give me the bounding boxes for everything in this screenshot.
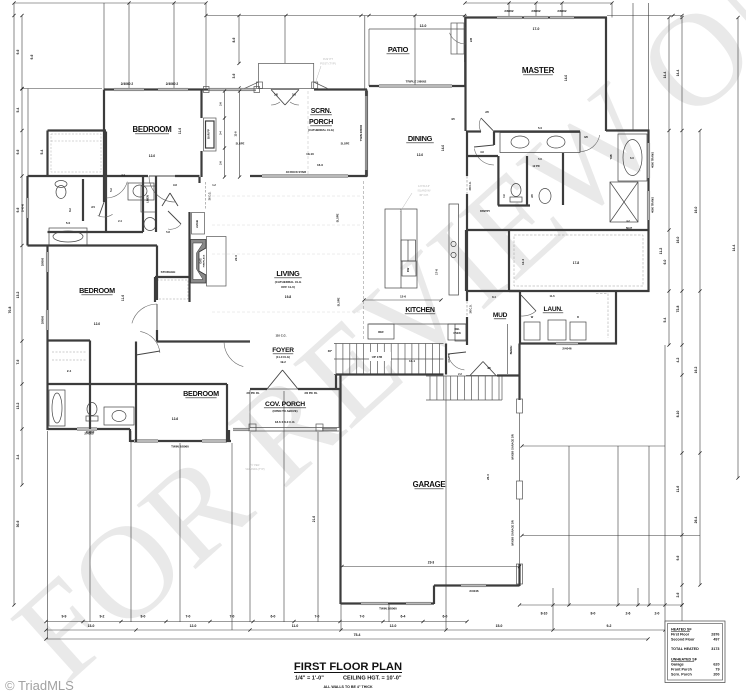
- svg-text:2/4060 2: 2/4060 2: [166, 82, 179, 86]
- svg-text:13-1: 13-1: [409, 359, 415, 363]
- svg-text:SCRN.: SCRN.: [311, 108, 332, 115]
- svg-text:4-4: 4-4: [121, 174, 125, 177]
- svg-text:19-2: 19-2: [280, 360, 286, 364]
- svg-text:12 PD: 12 PD: [532, 164, 539, 168]
- svg-text:9-6: 9-6: [16, 207, 20, 212]
- svg-text:9-9: 9-9: [62, 615, 67, 619]
- svg-text:72-8: 72-8: [676, 305, 680, 312]
- svg-text:17-0: 17-0: [533, 27, 540, 31]
- svg-text:D: D: [577, 315, 579, 319]
- svg-text:18-6 X 6-0 C.O.: 18-6 X 6-0 C.O.: [275, 420, 295, 424]
- svg-text:12-0: 12-0: [94, 322, 101, 326]
- svg-text:2/8062: 2/8062: [557, 9, 567, 13]
- svg-text:12-0: 12-0: [417, 153, 424, 157]
- svg-text:14-4: 14-4: [663, 71, 667, 78]
- svg-text:2-4: 2-4: [118, 219, 122, 223]
- svg-text:12-0: 12-0: [420, 24, 427, 28]
- svg-text:3/0: 3/0: [584, 135, 588, 139]
- svg-text:MUD: MUD: [493, 312, 508, 319]
- svg-text:12-6: 12-6: [400, 295, 406, 299]
- svg-text:12-4: 12-4: [521, 259, 525, 265]
- svg-text:9-6: 9-6: [676, 555, 680, 560]
- svg-text:9/0X8/0 GARAGE DR: 9/0X8/0 GARAGE DR: [511, 434, 515, 460]
- svg-text:3/0 C.O.: 3/0 C.O.: [470, 304, 473, 313]
- svg-text:3173: 3173: [711, 647, 719, 651]
- svg-text:PANTRY: PANTRY: [480, 210, 490, 213]
- svg-text:SEAT: SEAT: [626, 227, 633, 230]
- svg-text:16-0: 16-0: [694, 206, 698, 213]
- svg-text:2/8: 2/8: [485, 111, 489, 114]
- svg-text:4060 TRANS: 4060 TRANS: [651, 197, 655, 213]
- master closet: [509, 229, 649, 231]
- svg-text:75-4: 75-4: [354, 633, 361, 637]
- svg-text:8-2: 8-2: [68, 208, 72, 212]
- svg-text:11-6: 11-6: [676, 486, 680, 493]
- svg-text:COV. PORCH: COV. PORCH: [265, 401, 305, 408]
- svg-text:22-0: 22-0: [234, 255, 238, 261]
- svg-text:ISLAND W/: ISLAND W/: [418, 190, 431, 193]
- svg-text:12-0: 12-0: [149, 154, 156, 158]
- svg-text:LIVING: LIVING: [276, 269, 300, 278]
- interior walls: [48, 27, 649, 434]
- svg-text:UP 17R: UP 17R: [372, 355, 383, 359]
- svg-text:SLOPE: SLOPE: [341, 142, 350, 146]
- svg-text:BAR FP: BAR FP: [207, 129, 211, 139]
- svg-text:MASTER: MASTER: [522, 66, 555, 75]
- svg-text:UNHEATED SF: UNHEATED SF: [671, 658, 698, 662]
- svg-text:497: 497: [713, 638, 719, 642]
- svg-text:OVEN: OVEN: [453, 331, 460, 335]
- svg-text:2-2: 2-2: [458, 372, 462, 376]
- svg-text:HEATED SF: HEATED SF: [671, 628, 692, 632]
- dimension lines: [14, 2, 206, 4]
- svg-text:5-0: 5-0: [538, 157, 542, 161]
- svg-text:9'x9' PT: 9'x9' PT: [323, 57, 333, 61]
- svg-text:(11-0 CLG): (11-0 CLG): [276, 355, 290, 359]
- svg-text:13-2: 13-2: [16, 291, 20, 298]
- svg-text:17-6: 17-6: [435, 269, 439, 275]
- svg-text:TWIN 2/8060: TWIN 2/8060: [379, 607, 397, 611]
- svg-text:8-0: 8-0: [141, 615, 146, 619]
- svg-text:11-6: 11-6: [234, 131, 238, 137]
- svg-text:14-0: 14-0: [564, 75, 568, 82]
- svg-text:2-4: 2-4: [67, 369, 72, 373]
- svg-text:2/6: 2/6: [531, 194, 534, 198]
- svg-text:FIREPLACE: FIREPLACE: [203, 254, 206, 267]
- svg-text:2/8062: 2/8062: [504, 9, 514, 13]
- svg-text:2-6: 2-6: [219, 102, 223, 106]
- svg-text:26-4: 26-4: [694, 516, 698, 523]
- svg-text:OFF 11-0): OFF 11-0): [281, 285, 295, 289]
- svg-text:8-6: 8-6: [232, 37, 236, 42]
- svg-text:4-6"X13-6": 4-6"X13-6": [418, 185, 430, 188]
- svg-text:3/0 PR. RL: 3/0 PR. RL: [246, 391, 260, 395]
- svg-text:110 C.G.: 110 C.G.: [275, 334, 286, 338]
- svg-text:5-2: 5-2: [109, 188, 113, 192]
- svg-text:21-6: 21-6: [312, 516, 316, 523]
- svg-text:2/4060 2: 2/4060 2: [121, 82, 134, 86]
- svg-text:STORAGE: STORAGE: [161, 270, 176, 274]
- svg-text:26-0: 26-0: [486, 474, 490, 480]
- svg-text:19-8: 19-8: [285, 295, 292, 299]
- svg-text:8-10: 8-10: [676, 410, 680, 417]
- svg-text:First Floor: First Floor: [671, 633, 690, 637]
- svg-text:3/0: 3/0: [451, 118, 455, 121]
- svg-text:36 C.G.: 36 C.G.: [209, 191, 212, 200]
- svg-text:16-0: 16-0: [317, 163, 323, 167]
- svg-text:BEDROOM: BEDROOM: [79, 286, 115, 295]
- svg-text:11-0: 11-0: [292, 624, 299, 628]
- svg-text:11-6: 11-6: [178, 128, 182, 134]
- svg-text:DINING: DINING: [408, 134, 433, 143]
- svg-text:TWIN 2/8060: TWIN 2/8060: [171, 445, 189, 449]
- svg-text:LAUN.: LAUN.: [544, 306, 563, 313]
- svg-text:Second Floor: Second Floor: [671, 638, 695, 642]
- svg-text:200: 200: [713, 673, 719, 677]
- svg-text:2/8060: 2/8060: [41, 315, 45, 324]
- svg-text:8-0: 8-0: [591, 612, 596, 616]
- svg-text:9-8: 9-8: [173, 183, 177, 187]
- svg-text:2/4046: 2/4046: [21, 203, 25, 212]
- svg-text:AV/AB: AV/AB: [195, 220, 199, 228]
- svg-text:7-0: 7-0: [186, 615, 191, 619]
- svg-text:BEDROOM: BEDROOM: [133, 125, 172, 134]
- svg-text:30-6: 30-6: [16, 520, 20, 527]
- svg-text:3-8: 3-8: [480, 151, 484, 154]
- svg-text:2/4046: 2/4046: [562, 347, 572, 351]
- svg-text:6-0: 6-0: [271, 615, 276, 619]
- svg-text:14-4: 14-4: [676, 69, 680, 76]
- svg-text:(OPEN TO ABOVE): (OPEN TO ABOVE): [272, 409, 297, 413]
- svg-text:SLOPE: SLOPE: [336, 213, 340, 222]
- area table: [665, 621, 725, 683]
- svg-text:2876: 2876: [711, 633, 719, 637]
- svg-text:8-10: 8-10: [541, 612, 548, 616]
- svg-text:3-6: 3-6: [232, 73, 236, 78]
- svg-text:3/0 C.O.: 3/0 C.O.: [469, 181, 472, 190]
- svg-text:2/4046: 2/4046: [469, 589, 479, 593]
- svg-text:7-6: 7-6: [16, 359, 20, 364]
- svg-text:12-0: 12-0: [190, 624, 197, 628]
- svg-text:2-6: 2-6: [219, 161, 223, 165]
- svg-text:16-0: 16-0: [676, 236, 680, 243]
- svg-text:LINEN: LINEN: [146, 195, 150, 203]
- svg-text:23-3: 23-3: [428, 561, 435, 565]
- svg-text:ALL WALLS TO BE 4" THICK: ALL WALLS TO BE 4" THICK: [323, 685, 372, 689]
- svg-text:5-4: 5-4: [663, 317, 667, 322]
- svg-text:5-0: 5-0: [538, 126, 542, 130]
- svg-text:Front Porch: Front Porch: [671, 668, 693, 672]
- svg-text:12-6: 12-6: [172, 417, 179, 421]
- svg-text:9-2: 9-2: [100, 615, 105, 619]
- svg-text:9/0X8/0 GARAGE DR: 9/0X8/0 GARAGE DR: [511, 520, 515, 546]
- svg-text:14-4: 14-4: [732, 244, 736, 251]
- svg-text:5-8: 5-8: [166, 230, 170, 234]
- svg-text:9-2: 9-2: [607, 624, 612, 628]
- svg-text:17-8: 17-8: [573, 261, 580, 265]
- svg-text:© TriadMLS: © TriadMLS: [5, 678, 74, 693]
- svg-text:7-0: 7-0: [360, 615, 365, 619]
- svg-text:GAS: GAS: [200, 258, 203, 264]
- svg-text:15-0: 15-0: [496, 624, 503, 628]
- svg-text:14-0: 14-0: [441, 145, 445, 152]
- svg-text:TOTAL HEATED: TOTAL HEATED: [671, 647, 699, 651]
- svg-text:11-6: 11-6: [121, 295, 125, 301]
- svg-text:4060 TRANS: 4060 TRANS: [651, 152, 655, 168]
- svg-text:TRIPLE 2/8062: TRIPLE 2/8062: [406, 80, 427, 84]
- svg-text:GARAGE: GARAGE: [413, 480, 446, 489]
- svg-text:11-6: 11-6: [549, 294, 555, 298]
- svg-text:BEDROOM: BEDROOM: [183, 389, 219, 398]
- svg-text:2-0: 2-0: [655, 612, 660, 616]
- svg-text:2/8062: 2/8062: [531, 9, 541, 13]
- svg-text:CEILING HGT. = 10'-0": CEILING HGT. = 10'-0": [343, 676, 402, 682]
- svg-text:FOYER: FOYER: [272, 347, 294, 354]
- svg-text:18-10: 18-10: [306, 152, 314, 156]
- svg-text:13-0: 13-0: [88, 624, 95, 628]
- svg-text:Garage: Garage: [671, 663, 684, 667]
- svg-text:REF: REF: [378, 330, 384, 334]
- svg-text:PATIO: PATIO: [388, 45, 409, 54]
- svg-text:13-2: 13-2: [16, 402, 20, 409]
- svg-text:TUB: TUB: [610, 154, 613, 159]
- svg-text:POST (TYP): POST (TYP): [320, 62, 336, 66]
- svg-text:6-4: 6-4: [401, 615, 406, 619]
- svg-text:9-6: 9-6: [16, 49, 20, 54]
- svg-text:8-4: 8-4: [492, 295, 496, 299]
- svg-text:Scrn. Porch: Scrn. Porch: [671, 673, 692, 677]
- svg-text:3-4: 3-4: [219, 131, 223, 135]
- svg-text:70-8: 70-8: [8, 306, 12, 313]
- svg-text:2/4: 2/4: [91, 205, 95, 209]
- svg-text:1/4" = 1'-0": 1/4" = 1'-0": [295, 676, 324, 682]
- svg-text:2-6: 2-6: [676, 592, 680, 597]
- stairs: [334, 343, 444, 345]
- exterior walls: [21, 9, 655, 611]
- svg-text:9-6: 9-6: [30, 54, 34, 59]
- svg-text:16-2: 16-2: [694, 366, 698, 373]
- svg-text:2-6: 2-6: [626, 612, 631, 616]
- svg-text:2/4060: 2/4060: [86, 430, 95, 434]
- svg-text:(CATHEDRAL CLG: (CATHEDRAL CLG: [275, 280, 302, 284]
- svg-text:DW: DW: [406, 267, 410, 272]
- svg-text:3/0 PR. RL: 3/0 PR. RL: [304, 391, 318, 395]
- svg-text:4/0 ROCK STAIR: 4/0 ROCK STAIR: [286, 170, 306, 174]
- svg-text:SLOPE: SLOPE: [236, 142, 245, 146]
- svg-text:36": 36": [328, 349, 333, 353]
- svg-text:9-6: 9-6: [16, 149, 20, 154]
- svg-text:(CATHEDRAL CLG): (CATHEDRAL CLG): [308, 128, 334, 132]
- svg-text:11-2: 11-2: [659, 248, 663, 255]
- svg-text:7-0: 7-0: [315, 615, 320, 619]
- svg-text:3/0: 3/0: [487, 367, 491, 370]
- svg-text:FIRST FLOOR PLAN: FIRST FLOOR PLAN: [294, 661, 402, 673]
- svg-text:5-0: 5-0: [66, 221, 71, 225]
- svg-text:KITCHEN: KITCHEN: [405, 307, 435, 314]
- svg-text:TWIN 2/8060: TWIN 2/8060: [359, 124, 363, 141]
- svg-text:3-0: 3-0: [503, 194, 506, 198]
- svg-text:79: 79: [715, 668, 719, 672]
- svg-text:VERANDA (TYP): VERANDA (TYP): [245, 468, 264, 471]
- svg-text:2/8: 2/8: [469, 38, 473, 43]
- svg-text:12-0: 12-0: [390, 624, 397, 628]
- svg-text:5-4: 5-4: [40, 149, 44, 154]
- svg-text:2/8060: 2/8060: [41, 257, 45, 266]
- svg-text:620: 620: [713, 663, 719, 667]
- gas fireplace: [191, 240, 207, 284]
- svg-text:2-4: 2-4: [16, 454, 20, 459]
- svg-text:BENCH: BENCH: [510, 345, 513, 354]
- svg-text:4-2: 4-2: [676, 357, 680, 362]
- svg-text:½" PER: ½" PER: [251, 463, 260, 467]
- svg-text:6-0: 6-0: [443, 615, 448, 619]
- svg-text:6-0: 6-0: [630, 156, 634, 160]
- svg-text:5-4: 5-4: [16, 107, 20, 112]
- svg-text:6-0: 6-0: [663, 259, 667, 264]
- svg-text:SLOPE: SLOPE: [337, 297, 341, 306]
- svg-text:1-2: 1-2: [212, 184, 216, 187]
- svg-text:36" O.H.: 36" O.H.: [419, 194, 429, 197]
- svg-text:PORCH: PORCH: [309, 119, 333, 126]
